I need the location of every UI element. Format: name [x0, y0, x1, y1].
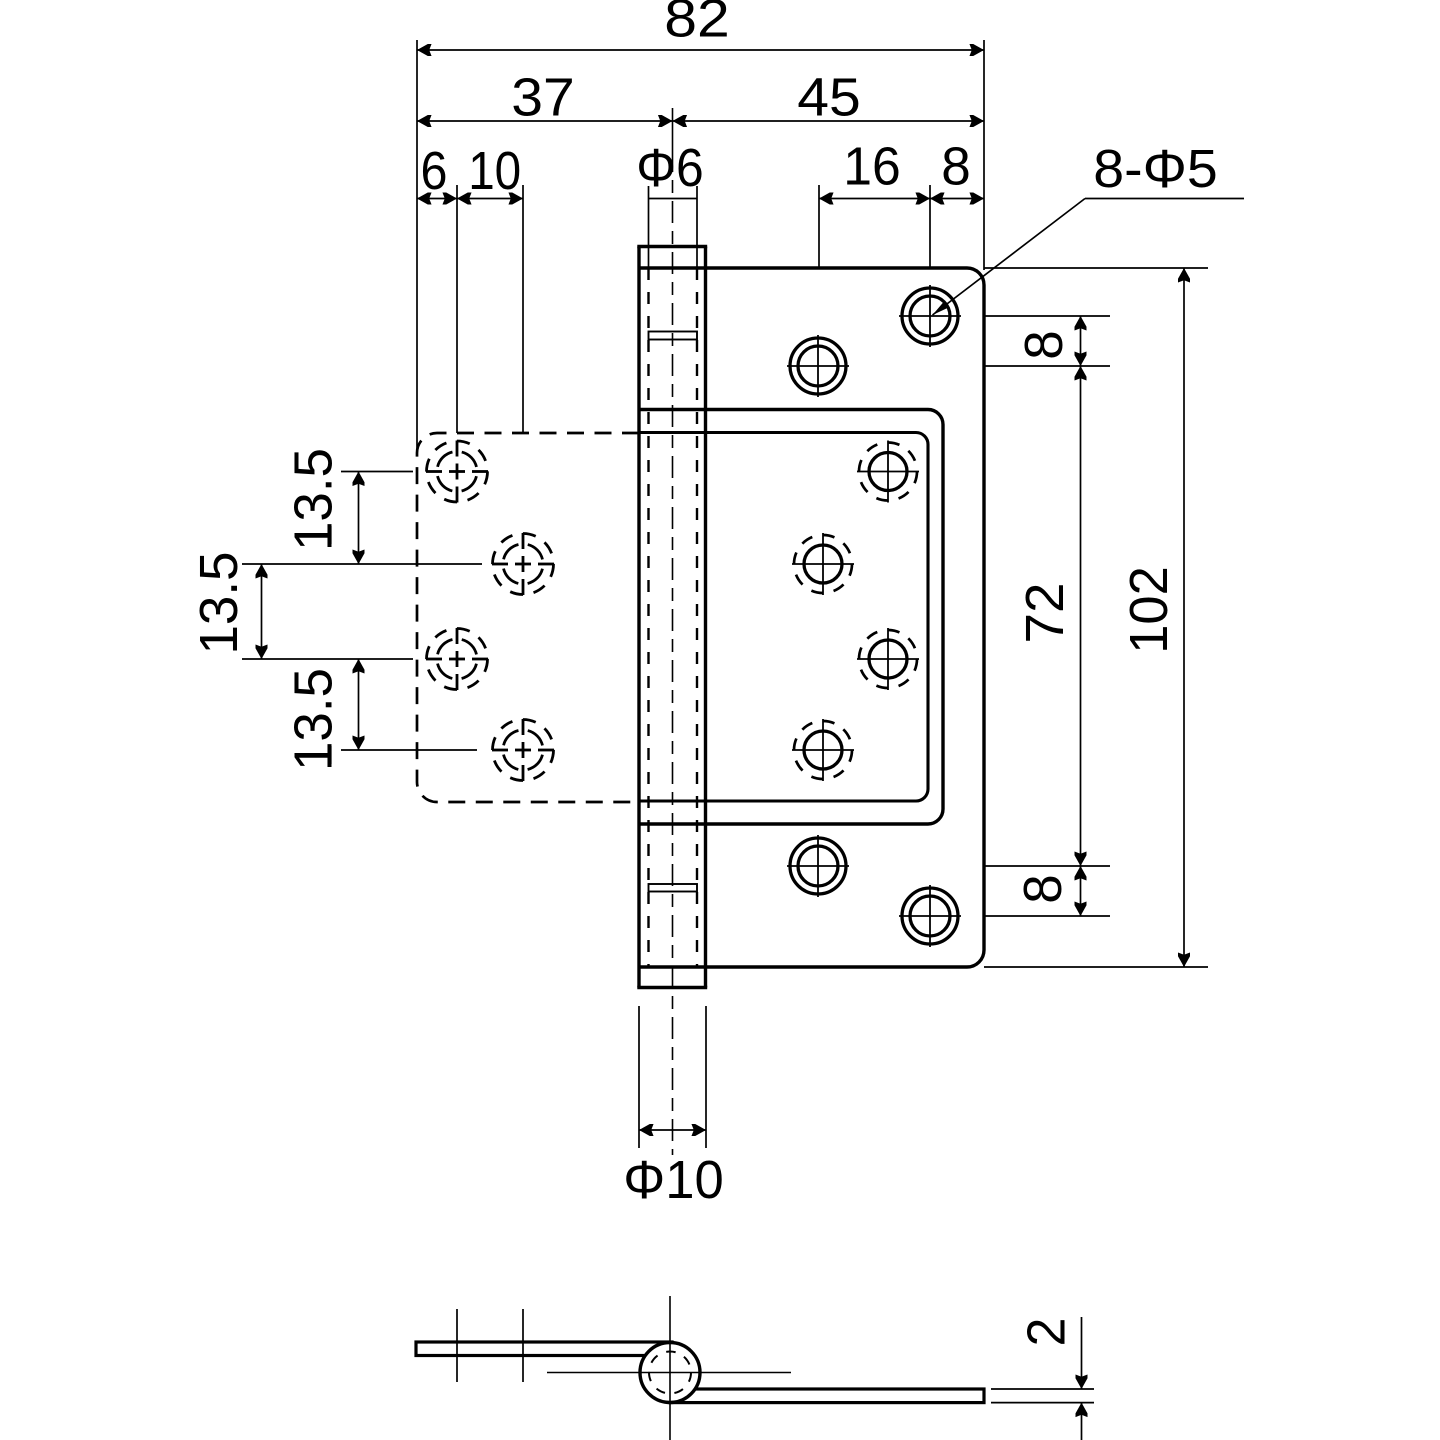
svg-text:8: 8	[941, 137, 971, 197]
svg-text:37: 37	[511, 68, 575, 128]
svg-text:72: 72	[1015, 583, 1075, 644]
svg-text:8: 8	[1013, 874, 1073, 904]
svg-text:10: 10	[468, 141, 521, 201]
svg-text:Φ10: Φ10	[623, 1150, 724, 1210]
svg-text:82: 82	[664, 0, 730, 49]
svg-text:16: 16	[843, 137, 901, 197]
svg-text:2: 2	[1017, 1318, 1077, 1347]
svg-text:102: 102	[1119, 566, 1179, 654]
svg-text:8: 8	[1014, 330, 1074, 360]
svg-text:13.5: 13.5	[284, 668, 344, 771]
svg-text:13.5: 13.5	[189, 552, 249, 655]
svg-text:13.5: 13.5	[284, 448, 344, 551]
svg-text:8-Φ5: 8-Φ5	[1093, 139, 1218, 199]
svg-text:45: 45	[797, 68, 861, 128]
svg-text:Φ6: Φ6	[636, 138, 704, 198]
svg-text:6: 6	[421, 141, 448, 201]
